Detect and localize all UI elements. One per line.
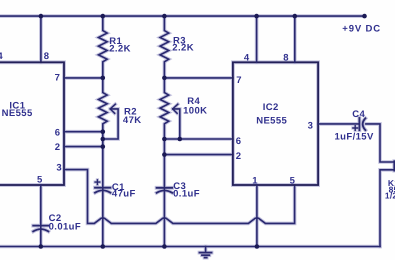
svg-text:47uF: 47uF <box>112 188 136 199</box>
node gnd-C3 <box>162 244 167 249</box>
arrowhead R4 <box>173 104 178 113</box>
svg-text:2: 2 <box>236 151 242 162</box>
svg-text:7: 7 <box>236 75 242 86</box>
op-amp U2 IC2 555 box <box>233 62 318 185</box>
node gnd-C2 <box>39 244 44 249</box>
wire IC2 pin 3 to C4 <box>318 123 358 125</box>
node rail-R3 <box>162 14 167 19</box>
wire IC1 pin 7 to R1/R2 junction <box>64 77 103 79</box>
svg-text:4: 4 <box>244 52 250 63</box>
node R4-wiper <box>178 137 183 142</box>
svg-text:100K: 100K <box>183 106 207 117</box>
node R2-pin6 <box>101 129 106 134</box>
wire IC1 pin 2 <box>64 146 103 148</box>
node R2-wiper <box>101 137 106 142</box>
svg-text:3: 3 <box>308 120 314 131</box>
svg-text:2.2K: 2.2K <box>109 43 131 54</box>
svg-text:6: 6 <box>55 127 61 138</box>
node rail-IC1pin8 <box>39 14 44 19</box>
svg-text:6: 6 <box>236 136 242 147</box>
node R2-pin2 <box>101 144 106 149</box>
arrowhead R2 <box>110 104 115 113</box>
svg-text:NE555: NE555 <box>2 108 33 119</box>
resistor R2 pot body <box>99 78 108 187</box>
svg-text:8: 8 <box>283 52 289 63</box>
node R1-R2-pin7 <box>101 76 106 81</box>
wire IC1 pin 6 <box>64 131 103 133</box>
node rail-IC2pin4 <box>254 14 259 19</box>
svg-text:2: 2 <box>55 142 61 153</box>
resistor R4 pot body <box>160 78 169 188</box>
wire IC2 pin 2 <box>164 154 233 156</box>
capacitor C3 plates <box>157 187 173 189</box>
wire IC1 pin 5 down <box>40 185 42 225</box>
svg-text:0.1uF: 0.1uF <box>173 188 200 199</box>
svg-text:C4: C4 <box>352 109 365 120</box>
svg-text:2.2K: 2.2K <box>172 43 194 54</box>
svg-text:+9V DC: +9V DC <box>342 24 381 35</box>
wire C4 to relay K1 <box>366 124 394 247</box>
node rail-IC2pin8 <box>293 14 298 19</box>
svg-text:4: 4 <box>0 51 3 62</box>
op-amp U1 IC1 555 box <box>0 62 64 185</box>
resistor R1 <box>99 16 108 78</box>
plus C1 <box>95 180 100 185</box>
svg-text:IC2: IC2 <box>263 102 279 113</box>
wire C3 to ground rail <box>163 188 165 246</box>
node gnd-IC2pin1 <box>255 244 260 249</box>
svg-text:5: 5 <box>290 175 296 186</box>
wire IC1 pin 3 run to IC2 pin 5 <box>64 170 295 224</box>
wire ground bottom rail <box>0 246 380 248</box>
node R4-pin2 <box>162 152 167 157</box>
svg-text:47K: 47K <box>123 115 142 126</box>
svg-text:3: 3 <box>56 163 62 174</box>
wiper arm R2 <box>103 109 118 139</box>
svg-text:5: 5 <box>37 175 43 186</box>
plus C4 <box>353 126 358 131</box>
capacitor C2 plates <box>33 225 48 227</box>
wire IC2 pin 1 to ground rail <box>256 185 258 247</box>
wire C2 to ground rail <box>40 227 42 247</box>
svg-text:8: 8 <box>44 51 50 62</box>
node R4-pin6 <box>162 137 167 142</box>
wire IC2 pin 4 to rail <box>256 16 258 62</box>
node rail-R1 <box>101 14 106 19</box>
wire IC2 pin 7 to R3/R4 junction <box>164 77 233 79</box>
capacitor C4 plates <box>358 118 360 130</box>
node R3-R4-pin7 <box>162 76 167 81</box>
node gnd-C1 <box>101 244 106 249</box>
svg-text:0.01uF: 0.01uF <box>49 222 82 233</box>
svg-text:NE555: NE555 <box>256 116 287 127</box>
wire +9V top rail <box>0 15 365 17</box>
svg-text:1uF/15V: 1uF/15V <box>335 131 374 142</box>
resistor R3 <box>160 16 169 78</box>
wire IC1 pin 8 to rail <box>40 16 42 62</box>
ground <box>205 247 207 253</box>
svg-text:1/2A: 1/2A <box>385 191 395 201</box>
wire IC2 pin 8 to rail <box>294 16 296 62</box>
svg-text:1: 1 <box>252 175 258 186</box>
wire C1 to ground rail <box>102 188 104 246</box>
wiper arm R4 <box>173 109 180 139</box>
capacitor C1 plates <box>95 187 110 189</box>
wire IC2 pin 6 <box>164 138 233 140</box>
svg-text:7: 7 <box>55 73 61 84</box>
node rail end +9V <box>362 14 367 19</box>
relay K1 edge bar <box>393 161 395 170</box>
